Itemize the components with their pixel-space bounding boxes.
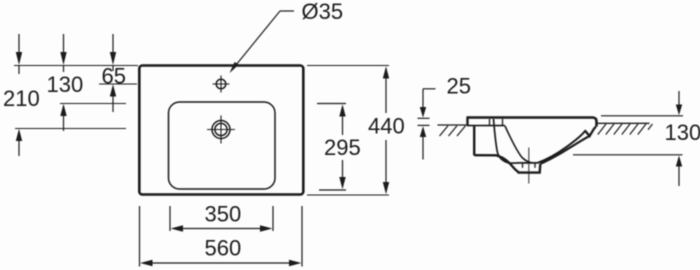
right extension line bottom y=195 — [307, 194, 389, 196]
faucet hole Ø35 — [213, 76, 230, 93]
counter hatching left — [440, 126, 466, 136]
leader line for Ø35 — [232, 11, 295, 71]
inner bowl rounded rectangle — [169, 102, 276, 189]
bottom extension lines for 560 — [139, 206, 141, 267]
outer wall left — [473, 126, 475, 156]
inner wall left — [494, 119, 518, 163]
rim underside left — [467, 125, 505, 127]
svg-text:25: 25 — [447, 74, 471, 99]
rim right overhang tab — [585, 127, 596, 137]
outer bottom and drain boss — [474, 155, 540, 172]
svg-text:65: 65 — [102, 64, 126, 89]
outer right curve up to rim tab — [540, 136, 589, 164]
extension bar bowl-top right y=103.5 — [317, 103, 346, 105]
dim 350 line — [176, 228, 267, 230]
extension bar bowl-bottom right y=190 — [319, 189, 346, 191]
svg-text:130: 130 — [665, 120, 700, 145]
extension line drain level y=128.5 — [15, 128, 126, 130]
dim 295 line + arrows — [342, 112, 344, 182]
extension line bowl-top level y=103.5 — [60, 103, 126, 105]
basin outline (overall rectangle 560x440) — [139, 66, 303, 195]
bottom extension lines for 350 — [169, 206, 171, 231]
dim 25 leader and line — [418, 89, 436, 160]
extension line top edge (left) — [14, 65, 138, 67]
inner bottom of drain boss — [517, 162, 538, 164]
dim 210 vertical line + arrows — [18, 34, 20, 156]
svg-text:350: 350 — [205, 202, 242, 227]
svg-text:210: 210 — [3, 86, 40, 111]
dim 130 vertical line + arrows — [63, 34, 65, 131]
faucet hole slot in rim — [489, 119, 491, 126]
extension line faucet level y=84 — [99, 83, 137, 85]
svg-text:295: 295 — [324, 135, 361, 160]
counter hatching right — [598, 124, 653, 135]
drain hole wall ticks — [523, 163, 536, 168]
basin section: rim top — [467, 118, 597, 127]
svg-text:440: 440 — [368, 114, 405, 139]
dim 440 line + arrows — [385, 73, 387, 187]
extension line bowl-bottom right — [573, 154, 683, 156]
svg-text:560: 560 — [205, 236, 242, 261]
inner bowl surface right — [538, 131, 586, 163]
dim 65 vertical line + arrows — [112, 34, 114, 112]
far-side bowl sweep — [505, 126, 533, 163]
counter line left — [438, 124, 467, 126]
drain centerline — [528, 148, 530, 184]
svg-text:130: 130 — [47, 72, 84, 97]
svg-text:Ø35: Ø35 — [302, 0, 344, 24]
right extension line top y=65.5 — [307, 65, 389, 67]
extension line rim-top right — [601, 115, 683, 117]
counter line right — [598, 122, 650, 124]
leader arrowhead — [230, 62, 240, 73]
drain (waste) with crosshair — [207, 116, 235, 144]
dim 130 arrows — [678, 91, 680, 186]
rim left cap — [466, 117, 468, 126]
dim 560 line — [146, 262, 296, 264]
